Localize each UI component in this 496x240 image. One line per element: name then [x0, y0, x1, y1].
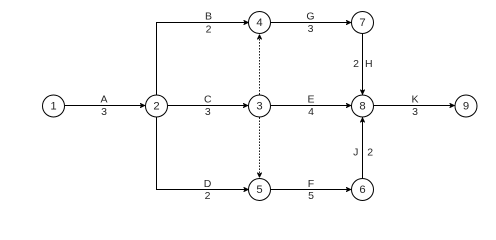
- svg-text:C: C: [204, 94, 212, 106]
- svg-text:G: G: [306, 11, 314, 23]
- svg-text:2: 2: [153, 101, 159, 113]
- svg-text:5: 5: [256, 184, 262, 196]
- svg-text:B: B: [205, 11, 212, 23]
- svg-text:3: 3: [101, 106, 107, 118]
- svg-text:3: 3: [256, 101, 262, 113]
- svg-text:2: 2: [205, 190, 211, 202]
- svg-text:3: 3: [308, 23, 314, 35]
- svg-text:2: 2: [367, 147, 373, 159]
- svg-text:2: 2: [206, 23, 212, 35]
- svg-text:A: A: [100, 94, 107, 106]
- svg-text:2: 2: [353, 58, 359, 70]
- svg-text:3: 3: [412, 106, 418, 118]
- svg-text:7: 7: [359, 17, 365, 29]
- svg-text:9: 9: [463, 101, 469, 113]
- svg-text:4: 4: [308, 106, 314, 118]
- svg-text:6: 6: [359, 184, 365, 196]
- svg-text:E: E: [307, 94, 314, 106]
- svg-text:8: 8: [359, 101, 365, 113]
- svg-text:K: K: [411, 94, 418, 106]
- svg-text:H: H: [365, 58, 373, 70]
- svg-text:D: D: [204, 178, 212, 190]
- svg-text:5: 5: [308, 190, 314, 202]
- svg-text:1: 1: [50, 101, 56, 113]
- svg-text:3: 3: [205, 106, 211, 118]
- svg-text:J: J: [353, 147, 358, 159]
- svg-text:4: 4: [256, 17, 262, 29]
- svg-text:F: F: [308, 178, 314, 190]
